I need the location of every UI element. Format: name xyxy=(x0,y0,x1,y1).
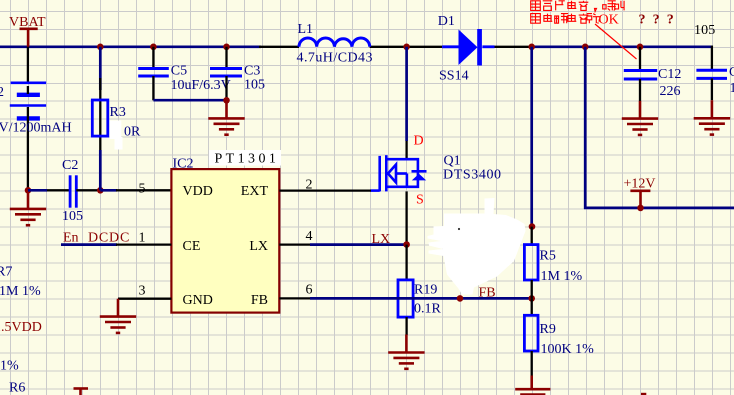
capacitor C5 xyxy=(138,69,169,77)
speck in blob xyxy=(458,228,460,230)
transistor Q1 NMOS xyxy=(371,155,427,191)
wire rail to Q1 drain xyxy=(405,47,408,141)
junction rail R3 xyxy=(97,44,104,51)
svg-text:R3: R3 xyxy=(110,105,126,120)
power port VBAT xyxy=(20,29,38,47)
power port stub bottom left xyxy=(74,389,89,395)
svg-text:LX: LX xyxy=(372,232,391,247)
annotation red line xyxy=(595,24,637,59)
svg-text:4.7uH/CD43: 4.7uH/CD43 xyxy=(297,51,373,66)
wire C5 top pin xyxy=(152,47,154,69)
eraser white blob xyxy=(428,198,526,295)
svg-text:C12: C12 xyxy=(658,67,681,82)
wire C3 top pin xyxy=(225,47,227,69)
wire D1 cathode stub xyxy=(482,45,494,48)
capacitor C15 xyxy=(696,70,727,78)
wire En DCDC xyxy=(61,243,117,246)
svg-text:SS14: SS14 xyxy=(439,68,469,83)
junction rail C12 xyxy=(637,44,644,51)
wire rail to R3 xyxy=(99,47,102,90)
svg-text:PT1301: PT1301 xyxy=(215,152,280,167)
junction battery-gnd xyxy=(25,187,32,194)
wire battery top lead xyxy=(27,47,29,83)
wire C5 bottom pin xyxy=(152,76,154,100)
wire EXT to gate xyxy=(279,189,371,191)
wire C2 left pin xyxy=(47,189,70,191)
capacitor C2 xyxy=(70,175,76,207)
svg-text:R5: R5 xyxy=(540,248,556,263)
wire R19 to gnd xyxy=(405,317,407,335)
svg-text:1M 1%: 1M 1% xyxy=(541,269,583,284)
svg-text:100K 1%: 100K 1% xyxy=(541,342,595,357)
junction rail R5 xyxy=(528,44,535,51)
svg-text:VBAT: VBAT xyxy=(9,15,46,30)
pin 6 FB xyxy=(279,297,311,299)
wire battery mid lead xyxy=(27,86,29,94)
svg-text:C3: C3 xyxy=(244,64,260,79)
pin R9 bottom xyxy=(531,351,533,376)
svg-text:1.5VDD: 1.5VDD xyxy=(0,320,42,335)
svg-text:? ? ?: ? ? ? xyxy=(639,13,676,28)
battery BT2 xyxy=(10,83,46,119)
wire battery bottom lead xyxy=(27,107,29,190)
pin R9 top xyxy=(531,298,533,315)
svg-text:EXT: EXT xyxy=(241,184,269,199)
junction above R5 xyxy=(529,223,536,230)
svg-text:5: 5 xyxy=(139,181,146,196)
svg-text:105: 105 xyxy=(244,77,265,92)
svg-text:FB: FB xyxy=(479,285,496,300)
ground bar bottom middle-right xyxy=(641,393,646,395)
ground under R19 xyxy=(388,335,424,369)
wire C12 bottom pin xyxy=(639,79,641,101)
svg-text:1%: 1% xyxy=(0,359,19,374)
junction LX node xyxy=(403,241,410,248)
wire rail corner down xyxy=(711,46,713,71)
wire to pin5 xyxy=(100,189,117,192)
svg-text:105: 105 xyxy=(62,209,83,224)
wire D1-out segment xyxy=(495,46,532,48)
svg-text:GND: GND xyxy=(183,293,213,308)
wire C12 top pin xyxy=(639,47,641,71)
resistor R5 xyxy=(524,245,538,280)
svg-text:1M 1%: 1M 1% xyxy=(0,284,41,299)
op-amp U IC2 PT1301 body xyxy=(171,169,279,313)
pin Q1 drain xyxy=(405,141,407,159)
resistor R19 xyxy=(398,280,413,317)
inductor L1 xyxy=(299,38,370,47)
svg-text:L1: L1 xyxy=(298,22,314,37)
wire C2 right pin xyxy=(76,189,100,191)
wire FB xyxy=(310,297,532,300)
wire C15 bottom pin xyxy=(711,78,713,100)
pin 5 VDD xyxy=(116,189,171,191)
svg-text:En: En xyxy=(63,230,79,245)
wire bat junction to C2 xyxy=(28,189,47,192)
svg-text:105: 105 xyxy=(694,23,715,38)
junction rail C3 xyxy=(223,44,230,51)
junction C2-R3-VDD xyxy=(97,187,104,194)
svg-text:FB: FB xyxy=(251,293,268,308)
svg-text:Q1: Q1 xyxy=(444,154,461,169)
svg-text:CE: CE xyxy=(183,239,201,254)
svg-text:0R: 0R xyxy=(124,125,141,140)
pin 3 GND xyxy=(118,298,171,300)
wire LX to R19 xyxy=(405,245,407,280)
svg-text:0.1R: 0.1R xyxy=(414,301,442,316)
junction rail C5 xyxy=(150,44,157,51)
ground under pin3 xyxy=(100,299,136,333)
svg-text:D: D xyxy=(414,134,424,149)
wire rail down to +12V row xyxy=(584,47,587,209)
svg-text:DTS3400: DTS3400 xyxy=(443,168,502,183)
svg-text:DCDC: DCDC xyxy=(88,230,130,245)
resistor R9 xyxy=(524,315,538,351)
svg-text:OK: OK xyxy=(599,12,619,27)
wire through R3 xyxy=(99,78,101,155)
svg-text:VDD: VDD xyxy=(183,184,213,199)
white box behind PT1301 xyxy=(209,150,281,166)
white patch near R3 value xyxy=(110,121,122,140)
svg-text:R9: R9 xyxy=(540,322,556,337)
diode D1 xyxy=(459,29,482,66)
ground under C12 xyxy=(622,101,658,135)
ground under R9 (partial) xyxy=(515,376,550,395)
resistor R3 xyxy=(92,100,108,136)
pin 1 CE xyxy=(116,243,171,245)
svg-text:C1: C1 xyxy=(729,65,734,80)
junction FB stub xyxy=(457,295,464,302)
svg-text:R6: R6 xyxy=(9,380,25,395)
junction C3 gnd node xyxy=(223,97,230,104)
svg-text:4: 4 xyxy=(306,229,313,244)
junction +12V xyxy=(637,205,644,212)
wire VBAT rail left xyxy=(0,45,261,48)
ground under C15 xyxy=(694,100,730,134)
wire C5 to C3 gnd node xyxy=(153,99,226,102)
junction FB divider xyxy=(528,295,535,302)
annotation chinese line1 xyxy=(531,1,624,12)
wire L1-D1 segment xyxy=(370,46,443,48)
junction rail +12V branch xyxy=(582,44,589,51)
wire Q1 source to LX xyxy=(405,191,407,244)
svg-text:C5: C5 xyxy=(171,64,187,79)
svg-text:IC2: IC2 xyxy=(173,156,194,171)
pin R5 top xyxy=(531,227,533,245)
wire LX xyxy=(310,243,407,246)
svg-text:S: S xyxy=(416,192,424,207)
wire +12V rail xyxy=(584,207,734,210)
wire R3 to junction xyxy=(99,150,102,190)
svg-text:LX: LX xyxy=(249,239,268,254)
junction rail drain xyxy=(403,44,410,51)
capacitor C12 xyxy=(624,71,657,80)
wire C3 bottom pin xyxy=(225,76,227,100)
svg-text:+12V: +12V xyxy=(624,176,656,191)
svg-text:R19: R19 xyxy=(414,282,437,297)
svg-text:3: 3 xyxy=(139,283,146,298)
svg-text:1: 1 xyxy=(139,230,146,245)
wire L1 left pin xyxy=(259,46,299,48)
ground under C3 xyxy=(208,100,244,134)
svg-text:R7: R7 xyxy=(0,264,12,279)
pin R5 bottom xyxy=(531,280,533,298)
pin 4 LX xyxy=(279,243,311,245)
annotation chinese line2 xyxy=(531,14,601,24)
svg-text:226: 226 xyxy=(660,84,681,99)
capacitor C3 xyxy=(210,69,242,77)
wire output rail xyxy=(532,45,713,48)
svg-text:2: 2 xyxy=(0,85,4,100)
wire D1 anode stub xyxy=(442,45,458,48)
svg-text:6: 6 xyxy=(306,282,313,297)
svg-text:10uF/6.3V: 10uF/6.3V xyxy=(171,78,231,93)
svg-text:D1: D1 xyxy=(438,14,455,29)
svg-text:3.7V/1200mAH: 3.7V/1200mAH xyxy=(0,120,72,135)
power port +12V xyxy=(630,191,650,208)
ground under battery xyxy=(10,190,46,225)
svg-text:C2: C2 xyxy=(62,158,78,173)
svg-text:10: 10 xyxy=(730,81,734,96)
wire rail to R5 xyxy=(530,47,533,227)
